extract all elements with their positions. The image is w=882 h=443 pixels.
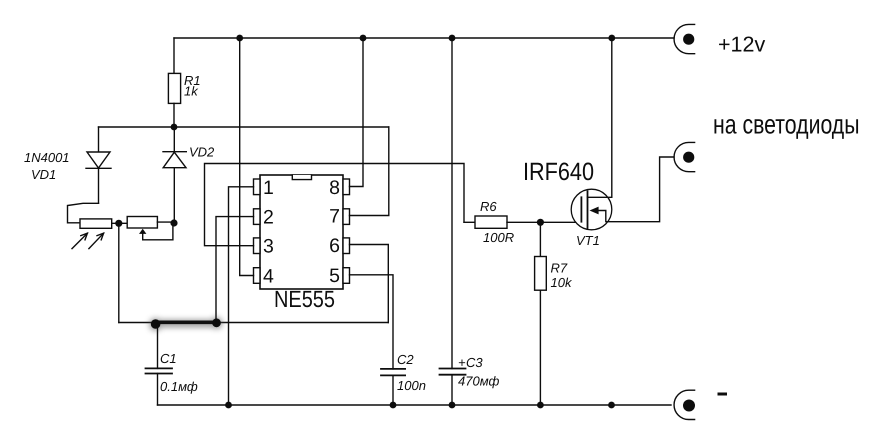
svg-text:1N4001: 1N4001 (24, 150, 70, 165)
capacitor C1 (146, 324, 173, 405)
connector minus (674, 390, 695, 419)
node top rail / pin8 branch (360, 35, 367, 42)
photoresistor LDR (72, 219, 112, 249)
pin 7 box (343, 209, 350, 225)
svg-text:100n: 100n (397, 378, 426, 393)
svg-text:1: 1 (263, 177, 274, 199)
svg-text:0.1мф: 0.1мф (160, 379, 198, 394)
node bar left / C1 junction (151, 319, 161, 329)
svg-text:1k: 1k (184, 84, 199, 99)
resistor R7 (535, 222, 547, 405)
wire pin8 to +12 (350, 38, 364, 187)
svg-text:C3: C3 (466, 355, 483, 370)
connector +12v (674, 24, 695, 53)
svg-text:C1: C1 (160, 351, 177, 366)
svg-text:7: 7 (329, 206, 340, 228)
pin 3 box (254, 238, 261, 254)
node top rail / pin4 branch (236, 35, 243, 42)
pin 1 box (254, 179, 261, 195)
svg-text:R6: R6 (480, 199, 497, 214)
wire pin1 to ground (229, 187, 254, 405)
op IC NE555 U1 body (260, 175, 343, 289)
svg-text:10k: 10k (551, 275, 573, 290)
svg-text:IRF640: IRF640 (523, 158, 594, 186)
node ground / C3 (449, 402, 456, 409)
pin 5 box (343, 268, 350, 284)
wire pin4 to +12 (240, 38, 254, 276)
node pot right / VD2 junction (170, 219, 177, 226)
diode VD1 (86, 127, 111, 203)
svg-text:R7: R7 (551, 261, 568, 276)
wire pin3 output to R6 (205, 164, 465, 246)
potentiometer (127, 217, 174, 240)
node top rail / C3 branch (449, 35, 456, 42)
svg-text:VD2: VD2 (189, 145, 215, 160)
node ground extra (608, 402, 615, 409)
svg-text:5: 5 (329, 265, 340, 287)
resistor R6 (464, 216, 581, 228)
node R1 bottom junction (171, 124, 178, 131)
svg-text:100R: 100R (483, 230, 514, 245)
wire +12 top rail (174, 37, 674, 39)
svg-text:VD1: VD1 (31, 167, 56, 182)
label minus dash (719, 393, 726, 396)
pin 6 box (343, 238, 350, 254)
wire ground rail (158, 404, 672, 406)
wire trigger net horizontal (119, 322, 389, 324)
svg-text:NE555: NE555 (274, 286, 335, 312)
wire junction down to trigger net (118, 223, 120, 322)
wire pin2 to trigger bar (216, 217, 254, 323)
svg-text:2: 2 (263, 207, 274, 229)
node top rail / VT1 drain branch (608, 35, 615, 42)
wire VD1 to LDR jog (68, 203, 99, 223)
svg-text:3: 3 (263, 236, 274, 258)
svg-text:4: 4 (263, 265, 274, 287)
wire LDR to pot (112, 222, 128, 224)
svg-text:+12v: +12v (718, 33, 765, 57)
svg-text:+: + (458, 355, 466, 370)
capacitor C3 (440, 38, 466, 405)
wire pin5 to C2 (350, 275, 394, 369)
node ground / C2 (390, 402, 397, 409)
node ground / pin1 (225, 402, 232, 409)
diode VD2 (163, 127, 186, 223)
node LDR / pot junction (115, 220, 122, 227)
svg-text:на светодиоды: на светодиоды (713, 110, 860, 140)
wire pin7 to R1 bottom (350, 127, 389, 216)
connector LED output (674, 142, 695, 171)
pin 2 box (254, 209, 261, 225)
pin 4 box (254, 268, 261, 284)
svg-text:VT1: VT1 (576, 233, 600, 248)
resistor R1 (168, 38, 180, 127)
svg-text:8: 8 (329, 177, 340, 199)
wire pin6 to trigger bar (350, 245, 389, 323)
node bar right / pin2 junction (212, 318, 221, 327)
capacitor C2 (381, 369, 405, 405)
svg-text:C2: C2 (397, 352, 414, 367)
wire R1 bottom horizontal to pin7 (99, 126, 389, 128)
node gate / R7 junction (537, 219, 544, 226)
transistor VT1 IRF640 (571, 38, 674, 230)
pin 8 box (343, 179, 350, 195)
wire smudged bar segment (149, 317, 222, 331)
node ground / R7 (537, 402, 544, 409)
svg-text:470мф: 470мф (458, 374, 499, 389)
svg-text:6: 6 (329, 235, 340, 257)
